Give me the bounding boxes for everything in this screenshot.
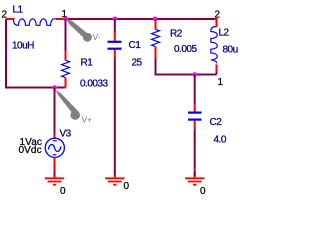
R1 value label 0.0033 [80, 79, 109, 90]
wire top rail (node 1 net) [66, 19, 217, 22]
wire bottom-left rail [5, 87, 66, 89]
svg-text:R1: R1 [81, 58, 94, 69]
C1 refdes label [129, 40, 142, 51]
wire L2 bottom corner [216, 72, 218, 75]
wire top rail down to C1 [114, 19, 116, 31]
capacitor C2 [188, 104, 202, 130]
svg-text:L2: L2 [219, 28, 230, 39]
svg-text:V+: V+ [82, 115, 93, 125]
ground 0 (middle) [105, 175, 124, 184]
junction bottom-left (V3/R1) [52, 85, 57, 90]
svg-text:80u: 80u [223, 45, 238, 56]
wire left rail [5, 19, 7, 88]
wire C1 to ground [114, 59, 116, 176]
svg-text:0Vdc: 0Vdc [19, 145, 42, 156]
svg-text:C1: C1 [129, 40, 142, 51]
vsource V3 [45, 133, 64, 167]
V3 value label 0Vdc [19, 145, 42, 156]
junction top of C1 branch [113, 17, 118, 22]
capacitor C1 [108, 31, 122, 59]
node 2 label (top-right) [215, 10, 221, 21]
inductor L2 [211, 19, 218, 72]
junction bottom rail at C2 [192, 72, 197, 77]
ground 0 label (middle) [124, 181, 130, 192]
ground 0 label (left) [60, 186, 66, 197]
L2 value label 80u [223, 45, 238, 56]
wire junction down to V3 [54, 88, 56, 134]
C2 refdes label [210, 117, 223, 128]
svg-text:C2: C2 [210, 117, 223, 128]
node 1 label [62, 9, 68, 20]
svg-text:L1: L1 [13, 5, 24, 16]
svg-text:4.0: 4.0 [214, 135, 227, 146]
C2 value label 4.0 [214, 135, 227, 146]
wire C2 to ground [194, 130, 196, 169]
R1 refdes label [81, 58, 94, 69]
V3 value label 1Vac [20, 137, 42, 148]
C1 value label 25 [132, 58, 143, 69]
svg-text:0: 0 [60, 186, 66, 197]
wire R2 down and bottom rail [156, 58, 217, 75]
ground 0 label (right) [200, 186, 206, 197]
ground 0 (right) [185, 168, 204, 185]
node 1 label (bottom-right) [218, 77, 224, 88]
wire V3 to ground [54, 166, 56, 171]
wire bottom rail down to C2 [194, 75, 196, 105]
ground 0 (left) [45, 167, 64, 185]
svg-text:0: 0 [124, 181, 130, 192]
svg-text:V-: V- [93, 32, 101, 42]
L1 refdes label [13, 5, 24, 16]
L1 value label 10uH [12, 41, 34, 52]
probe V+ label [82, 115, 93, 125]
R2 value label 0.005 [174, 44, 197, 55]
svg-text:0: 0 [200, 186, 206, 197]
svg-text:V3: V3 [60, 129, 72, 140]
node 2 label (top-left net 2) [2, 10, 8, 21]
junction top of R2 branch [153, 17, 158, 22]
resistor R1 [62, 51, 70, 88]
svg-text:1: 1 [218, 77, 224, 88]
L2 refdes label [219, 28, 230, 39]
svg-text:R2: R2 [170, 29, 183, 40]
probe V- label [93, 32, 101, 42]
resistor R2 [152, 19, 160, 58]
wire node1 down to R1 [65, 19, 67, 51]
svg-text:0.005: 0.005 [174, 44, 197, 55]
svg-text:10uH: 10uH [12, 41, 34, 52]
svg-text:25: 25 [132, 58, 143, 69]
R2 refdes label [170, 29, 183, 40]
svg-text:0.0033: 0.0033 [80, 79, 109, 90]
V3 refdes label [60, 129, 72, 140]
probe V- [66, 19, 92, 42]
probe V+ [55, 90, 80, 120]
junction node 1 [63, 17, 68, 22]
inductor L1 [6, 19, 66, 26]
